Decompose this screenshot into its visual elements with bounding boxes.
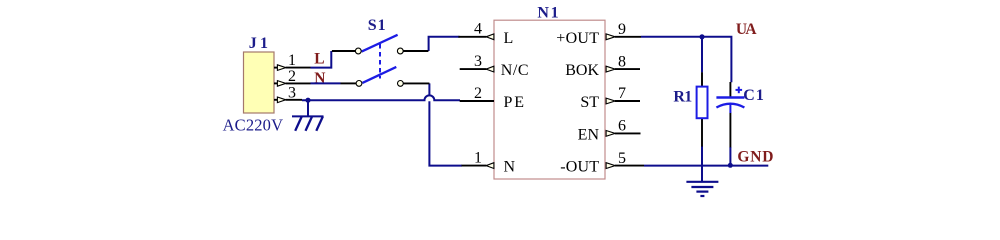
svg-text:4: 4 (474, 21, 482, 38)
svg-text:9: 9 (618, 21, 626, 38)
svg-text:3: 3 (288, 84, 296, 101)
svg-text:N: N (314, 70, 325, 87)
svg-text:1: 1 (288, 52, 296, 69)
svg-text:-OUT: -OUT (560, 159, 599, 176)
svg-text:S1: S1 (368, 17, 386, 34)
svg-text:GND: GND (737, 149, 773, 166)
svg-text:ST: ST (580, 94, 599, 111)
svg-text:UA: UA (736, 21, 757, 38)
svg-text:L: L (314, 50, 324, 67)
svg-text:EN: EN (578, 126, 600, 143)
svg-text:BOK: BOK (565, 62, 599, 79)
svg-text:8: 8 (618, 53, 626, 70)
svg-text:2: 2 (288, 68, 296, 85)
svg-text:1: 1 (474, 149, 482, 166)
svg-text:J1: J1 (249, 35, 268, 52)
svg-text:N1: N1 (537, 4, 558, 21)
svg-text:3: 3 (474, 53, 482, 70)
svg-text:2: 2 (474, 85, 482, 102)
svg-text:R1: R1 (673, 89, 692, 106)
svg-text:N/C: N/C (501, 62, 529, 79)
svg-text:C1: C1 (743, 87, 764, 104)
svg-text:L: L (504, 30, 514, 47)
svg-text:6: 6 (618, 118, 626, 135)
svg-text:5: 5 (618, 150, 626, 167)
svg-text:PE: PE (504, 94, 525, 111)
svg-text:N: N (504, 159, 516, 176)
svg-text:+OUT: +OUT (556, 30, 599, 47)
svg-text:7: 7 (618, 85, 626, 102)
svg-text:AC220V: AC220V (223, 116, 283, 135)
